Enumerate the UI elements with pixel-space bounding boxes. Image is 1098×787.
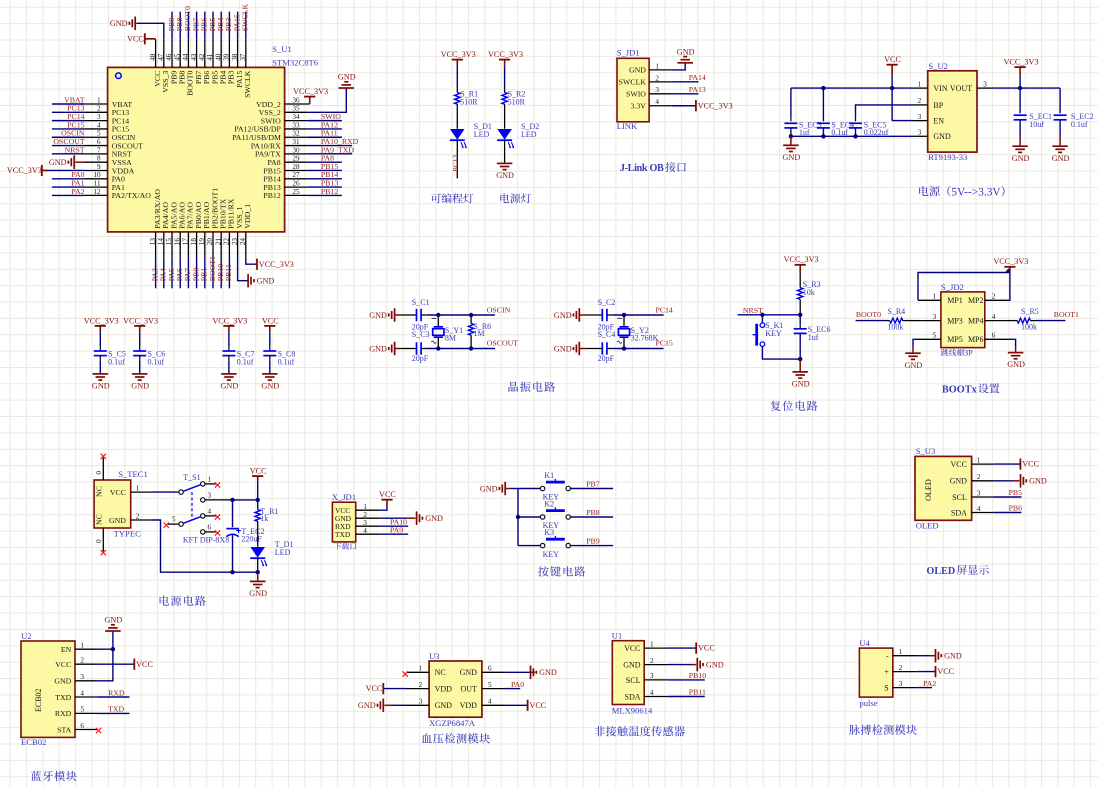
title blood pressure module 血压检测模块: [422, 733, 491, 743]
svg-text:VIN: VIN: [933, 84, 947, 93]
TEC1 pin 0 top (nc): [102, 457, 104, 480]
svg-text:OLED: OLED: [916, 521, 939, 531]
usb connector S_TEC1 TYPEC body: [94, 480, 131, 528]
svg-text:1: 1: [136, 484, 140, 492]
wire SCL to PB10: [668, 679, 705, 681]
U1 pin 18 (PB0/AO): [196, 232, 198, 258]
power VCC_3V3 reset pullup: [795, 264, 806, 266]
svg-text:1: 1: [363, 503, 367, 511]
svg-text:SCL: SCL: [952, 493, 967, 502]
U1 pin 31 (PA10/RX): [285, 145, 308, 147]
net label PA15: [232, 14, 241, 31]
svg-text:MP6: MP6: [968, 335, 984, 344]
wire to SWCLK: [245, 12, 247, 40]
svg-text:GND: GND: [1029, 477, 1047, 486]
U1 pin 10 (PA0): [85, 178, 108, 180]
wire RXD to TXD net: [97, 712, 129, 714]
U1 pin 38 (PA15): [237, 39, 239, 67]
svg-text:GND: GND: [92, 382, 110, 391]
svg-text:GND: GND: [261, 382, 279, 391]
led T_D1: [250, 547, 265, 558]
ground of power circuit: [257, 572, 259, 581]
wire U1 pin 35 VSS_2 to ground: [308, 88, 347, 112]
U1 pin 27 (PB14): [285, 178, 308, 180]
svg-text:4: 4: [363, 527, 367, 535]
svg-text:VCC: VCC: [529, 701, 546, 710]
wire to S_C5: [99, 332, 101, 346]
wire U4 + to VCC: [917, 671, 936, 673]
svg-text:SWCLK: SWCLK: [619, 78, 647, 87]
svg-text:S_U1: S_U1: [272, 44, 292, 54]
wire K3 to PB9: [571, 545, 614, 547]
svg-text:29: 29: [292, 155, 300, 163]
ground under S_C8: [269, 373, 271, 375]
svg-text:6: 6: [208, 523, 212, 531]
U1 pin 20 (PB2/BOOT1): [212, 232, 214, 258]
wire JD1 pin 3 to PA13: [672, 93, 699, 95]
title programmable-light 可编程灯: [431, 193, 473, 203]
svg-text:PB12: PB12: [263, 191, 280, 200]
svg-text:SWCLK: SWCLK: [241, 4, 250, 32]
power VCC_3V3 feeding S_R1: [452, 59, 463, 61]
svg-text:1: 1: [977, 456, 981, 464]
svg-text:GND: GND: [783, 153, 801, 162]
wire S_C1 to OSCIN: [427, 314, 495, 316]
T_S1 pin 3 wire to VCC rail: [205, 499, 233, 501]
wire VCC pin to VCC: [97, 663, 134, 665]
svg-text:VCC_3V3: VCC_3V3: [698, 101, 733, 110]
T_S1 pin 6 (nc): [205, 531, 217, 533]
ground under S_C6: [139, 373, 141, 375]
svg-text:PA14: PA14: [689, 73, 706, 82]
svg-text:NC: NC: [95, 514, 104, 525]
svg-text:S_C2: S_C2: [598, 298, 616, 307]
net label RXD: [108, 688, 125, 697]
net label PA12: [321, 120, 338, 129]
svg-text:XGZP6847A: XGZP6847A: [429, 718, 476, 728]
svg-text:OLED: OLED: [924, 479, 933, 501]
svg-text:KEY: KEY: [543, 550, 560, 559]
net label PA8: [321, 154, 334, 163]
output cap S_EC1 10uf: [1019, 88, 1021, 113]
svg-text:GND: GND: [249, 589, 267, 598]
svg-text:GND: GND: [905, 361, 923, 370]
svg-text:K3: K3: [544, 528, 554, 537]
wire to S_C6: [139, 332, 141, 346]
svg-text:1: 1: [655, 62, 659, 70]
net label TXD: [108, 705, 124, 714]
JD2 pins 3/4: [918, 320, 941, 322]
U1 pin 43 (PB7): [196, 39, 198, 67]
svg-text:GND: GND: [1052, 154, 1070, 163]
connector X_JD1 body: [332, 502, 355, 542]
U3 pin 1 (NC) left: [407, 671, 430, 673]
svg-text:23: 23: [231, 238, 239, 246]
svg-text:20pF: 20pF: [412, 354, 429, 363]
input cap S_EC3 1uf: [790, 88, 792, 117]
U3 pin 2 (VDD) left: [407, 688, 430, 690]
svg-text:LINK: LINK: [617, 121, 638, 131]
svg-text:NC: NC: [95, 486, 104, 497]
svg-text:GND: GND: [369, 344, 387, 353]
net label PA0: [511, 680, 524, 689]
svg-text:GND: GND: [54, 677, 71, 686]
svg-text:33: 33: [292, 121, 300, 129]
wire to PA6: [179, 258, 181, 289]
U1 pin 22 (PB11/RX): [228, 232, 230, 258]
wire to PB10: [220, 258, 222, 289]
svg-text:STA: STA: [57, 725, 71, 734]
value STM32C8T6: [272, 57, 319, 67]
svg-text:VCC: VCC: [55, 660, 71, 669]
U1 pin 34 (SWIO): [285, 120, 308, 122]
svg-text:GND: GND: [257, 277, 275, 286]
led S_D2: [497, 129, 512, 140]
U2 pin 3 (VOUT): [977, 87, 993, 89]
junction at VCC_3V3/VOUT: [1018, 86, 1022, 90]
output cap S_EC2 0.1uf: [1059, 88, 1061, 113]
net label OSCOUT: [53, 137, 84, 146]
wire to BOOT0: [187, 12, 189, 40]
svg-text:GND: GND: [460, 668, 478, 677]
svg-text:PB8: PB8: [586, 508, 600, 517]
value LINK: [617, 121, 638, 131]
regulator U2 (S_U2 RT9193-33) body: [928, 71, 977, 152]
svg-text:5: 5: [97, 130, 101, 138]
ground reset circuit: [799, 359, 801, 372]
net label SWIO: [321, 112, 341, 121]
wire to PA0: [52, 178, 85, 180]
X_JD1 pin 2 (GND): [356, 517, 380, 519]
svg-text:PB11: PB11: [224, 264, 233, 281]
svg-text:4: 4: [977, 505, 981, 513]
svg-text:PC13: PC13: [451, 155, 460, 172]
pressure sensor U3 XGZP6847A body: [429, 661, 482, 717]
net label PB6: [1009, 504, 1023, 513]
svg-text:GND: GND: [369, 311, 387, 320]
power VCC for T_R1: [252, 475, 263, 477]
U1 pin 28 (PB15): [285, 169, 308, 171]
svg-text:NRST: NRST: [65, 145, 85, 154]
U1 pin 44 (BOOT0): [187, 39, 189, 67]
value ECB02: [21, 737, 46, 747]
svg-text:PB10: PB10: [689, 671, 706, 680]
svg-text:27: 27: [292, 171, 300, 179]
ground for S_C3: [394, 342, 396, 356]
svg-text:S: S: [884, 684, 888, 693]
svg-text:NRST: NRST: [743, 306, 763, 315]
wire to VBAT: [52, 103, 85, 105]
svg-text:15: 15: [165, 238, 173, 246]
svg-text:U4: U4: [859, 638, 870, 648]
resistor S_R1 510R: [456, 89, 458, 93]
wire TEC1 VCC to switch pin2: [150, 491, 179, 493]
U2 pin 2 (BP): [913, 104, 928, 106]
svg-text:4: 4: [650, 689, 654, 697]
net label PA6: [175, 268, 184, 281]
wire U4 S to PA2: [917, 687, 932, 689]
ground at U4: [935, 649, 937, 663]
svg-text:GND: GND: [933, 132, 951, 141]
power VCC at X_JD1: [381, 499, 392, 501]
wire SDA to PB11: [668, 696, 705, 698]
svg-text:4: 4: [992, 313, 996, 321]
wire to PB6: [204, 12, 206, 40]
net label PA1: [71, 179, 84, 188]
svg-text:STM32C8T6: STM32C8T6: [272, 57, 319, 67]
svg-text:MLX90614: MLX90614: [612, 706, 653, 716]
svg-text:3P: 3P: [964, 348, 973, 357]
wire U3 VDD to VCC: [383, 688, 406, 690]
svg-text:PA13: PA13: [689, 85, 706, 94]
svg-text:BP: BP: [933, 101, 943, 110]
svg-text:MP1: MP1: [947, 296, 963, 305]
net label PA7: [183, 268, 192, 281]
svg-text:KFT DIP-8X8: KFT DIP-8X8: [183, 536, 229, 545]
svg-text:EN: EN: [933, 117, 944, 126]
net label NRST: [743, 306, 763, 315]
net label PC14: [67, 112, 84, 121]
ground at U1 pin 47 VSS_3: [136, 23, 164, 39]
svg-text:ECB02: ECB02: [34, 688, 43, 712]
svg-text:41: 41: [206, 53, 214, 61]
svg-text:SDA: SDA: [624, 692, 640, 701]
svg-text:3: 3: [899, 680, 903, 688]
svg-text:2: 2: [655, 74, 659, 82]
svg-text:VCC_3V3: VCC_3V3: [84, 316, 119, 325]
svg-text:GND: GND: [110, 19, 128, 28]
svg-text:K2: K2: [544, 500, 554, 509]
net label PA9_TXD: [321, 145, 354, 154]
net label PB6: [200, 18, 209, 32]
svg-text:GND: GND: [1012, 154, 1030, 163]
designator S_JD1: [617, 48, 640, 58]
svg-text:8M: 8M: [445, 333, 456, 342]
U1 pin 11 (PA1): [85, 186, 108, 188]
svg-text:J-Link OB: J-Link OB: [620, 163, 664, 174]
wire to OSCIN: [52, 136, 85, 138]
svg-text:MP3: MP3: [947, 317, 963, 326]
U1 pin-1 indicator circle: [116, 73, 122, 79]
svg-text:2: 2: [363, 511, 367, 519]
svg-text:VCC: VCC: [366, 684, 383, 693]
wire to PA7: [187, 258, 189, 289]
svg-text:3: 3: [650, 672, 654, 680]
ground under S_C5: [99, 373, 101, 375]
svg-text:VCC: VCC: [950, 460, 966, 469]
U1 pin 33 (PA12/USB/DP): [285, 128, 308, 130]
svg-text:48: 48: [149, 53, 157, 61]
svg-text:VCC: VCC: [379, 490, 396, 499]
decoupling cap S_C7 0.1uf: [228, 346, 230, 351]
svg-text:28: 28: [292, 163, 300, 171]
wire to PA11: [308, 136, 342, 138]
designator X_JD1: [332, 492, 356, 502]
U1 pin 5 (OSCIN): [85, 136, 108, 138]
svg-text:5V-->3.3V: 5V-->3.3V: [951, 186, 1001, 198]
svg-text:12: 12: [93, 188, 101, 196]
designator S_U2: [928, 61, 948, 71]
wire JD1 pin 4 to VCC_3V3: [672, 105, 696, 107]
wire to PA2: [52, 194, 85, 196]
svg-text:GND: GND: [338, 73, 356, 82]
crystal S_Y1 8M: [437, 315, 439, 327]
wire to PA5: [171, 258, 173, 289]
svg-text:RT9193-33: RT9193-33: [928, 152, 967, 162]
net label OSCOUT: [487, 338, 518, 347]
wire VCC_3V3 to S_R1: [456, 66, 458, 88]
wire key to ground rail: [762, 347, 800, 360]
wire to PA9_TXD: [308, 153, 353, 155]
value XGZP6847A: [429, 718, 476, 728]
power VCC_3V3 feeding S_R2: [499, 59, 510, 61]
U1 pin 2 (PC13): [85, 111, 108, 113]
net label PC13: [67, 104, 84, 113]
net label PB5: [208, 18, 217, 32]
wire OLED VCC: [993, 463, 1020, 465]
wire temp GND: [668, 664, 690, 666]
U2 pin 3 (GND): [913, 135, 928, 137]
svg-text:19: 19: [198, 238, 206, 246]
wire riser to ground symbol: [112, 631, 114, 649]
svg-text:+: +: [884, 668, 889, 677]
svg-text:24: 24: [239, 238, 247, 246]
wire VCC_3V3 to S_R2: [504, 66, 506, 88]
svg-text:GND: GND: [358, 701, 376, 710]
svg-text:1: 1: [899, 648, 903, 656]
svg-text:VCC: VCC: [884, 55, 901, 64]
svg-text:LED: LED: [275, 548, 291, 557]
svg-text:5: 5: [172, 516, 176, 524]
svg-text:510R: 510R: [508, 97, 526, 106]
U1 pin 24 (VDD_1): [245, 232, 247, 258]
power VCC at temp sensor: [695, 643, 697, 654]
junction NRST/key: [760, 313, 764, 317]
JD2 pins 5/6: [918, 338, 941, 340]
svg-text:3: 3: [80, 673, 84, 681]
svg-text:3: 3: [977, 489, 981, 497]
U1 pin 12 (PA2/TX/AO): [85, 194, 108, 196]
wire to PB13: [308, 186, 342, 188]
svg-text:35: 35: [292, 105, 300, 113]
U2-BT pin 3 (GND): [75, 680, 97, 682]
U1 pin 7 (NRST): [85, 153, 108, 155]
net label PA9: [390, 525, 403, 534]
resistor S_R2 510R: [504, 89, 506, 93]
wire to BOOT1: [212, 258, 214, 289]
junction T_D1/bottom rail: [256, 570, 260, 574]
net label PB8: [586, 508, 600, 517]
wire S_C8 to ground: [269, 360, 271, 374]
net label PB7: [191, 18, 200, 32]
junction T_EC2 bottom rail: [230, 570, 234, 574]
power VCC feeding S_C8: [264, 325, 275, 327]
U1 pin 15 (PA5/AO): [171, 232, 173, 258]
svg-text:46: 46: [165, 53, 173, 61]
U3 pin 3 (GND) left: [407, 704, 430, 706]
svg-text:U2: U2: [21, 631, 32, 641]
ground at U1 pin 23: [247, 274, 249, 288]
U2-BT pin 1 (EN): [75, 648, 97, 650]
svg-text:VCC: VCC: [136, 660, 153, 669]
svg-text:2: 2: [992, 293, 996, 301]
svg-text:VOUT: VOUT: [950, 84, 972, 93]
wire to PA1: [52, 186, 85, 188]
svg-text:OSCIN: OSCIN: [487, 305, 511, 314]
svg-text:17: 17: [182, 238, 190, 246]
U1 pin 17 (PA7/AO): [187, 232, 189, 258]
mcu U1 (S_U1 STM32C8T6) body: [108, 67, 285, 232]
junction EC6/ground: [798, 357, 802, 361]
svg-text:LED: LED: [474, 130, 490, 139]
svg-text:GND: GND: [435, 701, 453, 710]
wire to PB0: [196, 258, 198, 289]
wire JD1 pin 1 to ground: [672, 63, 685, 70]
svg-text:6: 6: [992, 332, 996, 340]
title pulse detect module 脉搏检测模块: [849, 725, 917, 735]
svg-text:GND: GND: [496, 171, 514, 180]
svg-text:TYPEC: TYPEC: [114, 528, 141, 538]
svg-text:U1: U1: [612, 630, 623, 640]
bluetooth module U2 ECB02 body: [21, 641, 75, 737]
svg-text:VDD: VDD: [435, 685, 453, 694]
svg-text:PA9: PA9: [390, 525, 403, 534]
U1-temp pin 2 (GND): [644, 664, 668, 666]
svg-text:7: 7: [97, 146, 101, 154]
wire input rail to VIN: [791, 87, 913, 89]
U1 pin 29 (PA8): [285, 161, 308, 163]
svg-text:1: 1: [650, 640, 654, 648]
net label PB1: [200, 268, 209, 282]
wire to PA8: [308, 161, 342, 163]
U1 pin 37 (SWCLK): [245, 39, 247, 67]
svg-text:40: 40: [214, 53, 222, 61]
U1 pin 41 (PB5): [212, 39, 214, 67]
svg-text:2: 2: [80, 657, 84, 665]
U2-BT pin 4 (TXD): [75, 696, 97, 698]
ground at U3 pin6: [530, 666, 532, 680]
ground feeding keys: [504, 482, 506, 496]
svg-text:30: 30: [292, 146, 300, 154]
svg-text:TXD: TXD: [335, 530, 351, 539]
svg-text:MP5: MP5: [947, 335, 963, 344]
svg-text:44: 44: [182, 53, 190, 61]
net label BOOT1: [1054, 310, 1079, 319]
T_S1 pin 1 (nc): [205, 483, 217, 485]
designator S_U3: [916, 446, 936, 456]
svg-text:OUT: OUT: [460, 685, 477, 694]
net label PB9: [586, 536, 600, 545]
svg-text:ECB02: ECB02: [21, 737, 46, 747]
wire TXD to PA9: [380, 533, 409, 535]
value pulse: [859, 698, 877, 708]
svg-text:6: 6: [80, 722, 84, 730]
U4 pin 3 (S): [893, 687, 917, 689]
wire OLED GND: [993, 480, 1013, 482]
wire to S_C7: [228, 332, 230, 346]
ground for S_C4: [578, 342, 580, 356]
title crystal circuit 晶振电路: [508, 382, 555, 392]
svg-text:36: 36: [292, 96, 300, 104]
svg-text:510R: 510R: [460, 97, 478, 106]
svg-text:4: 4: [488, 698, 492, 706]
title OLED display: [927, 566, 956, 577]
net label PA2: [71, 187, 84, 196]
pushbutton K2 KEY: [518, 516, 540, 518]
svg-text:RXD: RXD: [55, 709, 72, 718]
U1-temp pin 3 (SCL): [644, 679, 668, 681]
power VCC_3V3 at U1 pin 36 VDD_2: [308, 103, 310, 105]
